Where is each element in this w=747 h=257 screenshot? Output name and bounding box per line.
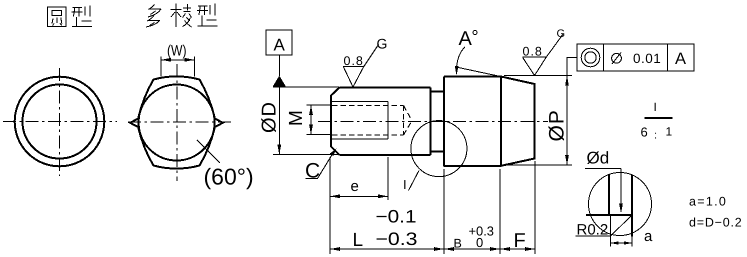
dim L dimension line <box>330 248 444 250</box>
svg-text:A: A <box>274 36 286 55</box>
label (60°) with leader <box>197 140 220 163</box>
svg-text:0.01: 0.01 <box>633 51 661 66</box>
view2 lobed hexagon outline <box>130 76 223 168</box>
head outline <box>444 77 535 166</box>
dim a dimension line <box>611 242 633 244</box>
svg-text:d=D−0.2: d=D−0.2 <box>689 216 743 230</box>
svg-text:G: G <box>557 28 566 40</box>
view2 inner circle <box>139 85 215 161</box>
svg-text:C: C <box>305 160 320 183</box>
view1 inner circle <box>23 85 97 159</box>
datum A box <box>266 30 292 55</box>
thread hole hidden lines (dashed) <box>332 106 404 136</box>
view2 vertical centerline <box>176 64 178 181</box>
svg-text:−0.1: −0.1 <box>376 207 417 227</box>
svg-text:G: G <box>377 36 388 52</box>
Ø symbol in frame <box>612 53 622 63</box>
detail circle I on main view <box>411 121 467 177</box>
dim ØP dimension line <box>566 57 568 165</box>
svg-text:A: A <box>675 50 686 68</box>
feature control frame <box>567 56 577 58</box>
dim F extension line + dimension line <box>534 161 536 254</box>
svg-text:1: 1 <box>666 125 673 139</box>
svg-text:a: a <box>644 228 653 245</box>
svg-text:B: B <box>454 237 462 251</box>
main view centerline <box>318 121 548 123</box>
title 多棱型 (multi-ridge type) <box>146 4 218 28</box>
dim L extension lines <box>330 157 444 254</box>
dim M extension lines <box>307 105 333 135</box>
svg-text:Ød: Ød <box>587 149 610 168</box>
datum leader line <box>278 55 280 76</box>
view1 vertical centerline <box>59 68 61 176</box>
body right shoulder face <box>430 88 432 156</box>
detail groove: head face wall <box>631 175 633 237</box>
dim e extension line <box>387 157 389 200</box>
svg-text:ØD: ØD <box>259 101 281 133</box>
dim B extension line + dimension line <box>499 169 501 254</box>
svg-text:(60°): (60°) <box>204 164 254 190</box>
datum triangle <box>273 76 286 87</box>
svg-text:F: F <box>514 230 526 252</box>
label I leader <box>409 171 420 191</box>
concentricity symbol <box>581 48 600 67</box>
svg-text:M: M <box>286 110 307 126</box>
view2 horizontal centerline <box>128 121 232 123</box>
title 圆型 (round type) <box>48 6 93 27</box>
dim M dimension line <box>310 105 312 135</box>
neck groove lines <box>431 92 445 152</box>
head left face <box>443 77 445 167</box>
dim ØD dimension line <box>278 87 280 155</box>
detail groove bottom <box>586 214 632 216</box>
body outline with chamfers <box>331 88 431 156</box>
svg-text:L: L <box>353 230 364 251</box>
drill cone (dashed) <box>404 106 412 136</box>
svg-text:(W): (W) <box>167 43 187 60</box>
svg-text:ØP: ØP <box>546 109 569 141</box>
view1 horizontal centerline <box>3 121 117 123</box>
angle leader arc <box>456 47 465 72</box>
dim (W) dimension line <box>161 59 195 61</box>
svg-text:I: I <box>403 177 407 192</box>
svg-text::: : <box>654 130 657 142</box>
view1 outer circle <box>15 77 105 167</box>
svg-text:−0.3: −0.3 <box>376 229 418 249</box>
detail groove: body face wall <box>608 174 610 215</box>
detail view boundary circle <box>589 173 652 236</box>
drill end vertical (dashed) <box>403 106 405 136</box>
svg-text:e: e <box>351 178 359 195</box>
taper extension line <box>455 67 502 77</box>
dim a extension lines <box>611 216 633 247</box>
dim e dimension line <box>330 195 388 197</box>
dim ØD extension lines <box>273 87 339 155</box>
svg-text:a=1.0: a=1.0 <box>689 195 727 209</box>
svg-text:0.8: 0.8 <box>523 45 543 59</box>
dim ØP extension lines <box>504 76 572 165</box>
svg-text:A: A <box>459 28 473 50</box>
head mid vertical (taper start) <box>500 77 502 166</box>
dim (W) extension lines <box>161 57 195 77</box>
svg-text:0.8: 0.8 <box>344 54 364 68</box>
svg-text:0: 0 <box>476 235 483 250</box>
svg-text:6: 6 <box>641 125 648 140</box>
thread end vertical <box>387 102 389 140</box>
thread major lines (solid) <box>332 102 388 140</box>
svg-text:I: I <box>654 100 657 114</box>
